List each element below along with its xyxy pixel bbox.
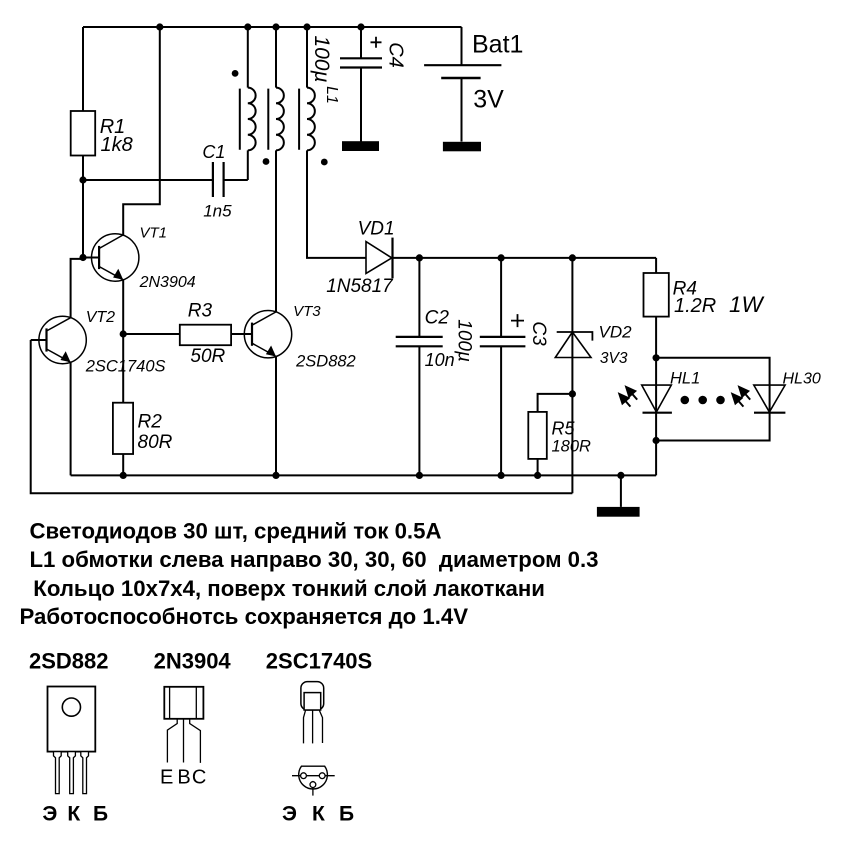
svg-text:К: К bbox=[67, 803, 80, 826]
svg-text:10n: 10n bbox=[425, 350, 455, 370]
svg-text:К: К bbox=[312, 803, 325, 826]
svg-text:B: B bbox=[177, 767, 190, 789]
svg-text:E: E bbox=[160, 767, 173, 789]
svg-text:C1: C1 bbox=[202, 142, 225, 162]
svg-text:Э: Э bbox=[42, 803, 57, 826]
svg-text:2SC1740S: 2SC1740S bbox=[266, 649, 372, 674]
svg-text:3V3: 3V3 bbox=[600, 350, 628, 367]
svg-text:VT3: VT3 bbox=[293, 303, 321, 320]
svg-text:Работоспособнотсь сохраняется: Работоспособнотсь сохраняется до 1.4V bbox=[20, 604, 469, 629]
svg-text:100µ: 100µ bbox=[454, 319, 475, 362]
svg-text:C2: C2 bbox=[425, 307, 450, 328]
svg-text:Светодиодов 30 шт, средний ток: Светодиодов 30 шт, средний ток 0.5А bbox=[30, 519, 442, 544]
svg-text:180R: 180R bbox=[552, 438, 592, 456]
svg-text:VT2: VT2 bbox=[86, 309, 115, 326]
svg-text:R5: R5 bbox=[552, 419, 576, 439]
svg-text:1W: 1W bbox=[729, 292, 765, 317]
svg-text:1n5: 1n5 bbox=[203, 202, 232, 221]
svg-text:Кольцо 10х7х4, поверх тонкий с: Кольцо 10х7х4, поверх тонкий слой лакотк… bbox=[33, 576, 545, 601]
svg-text:C3: C3 bbox=[528, 321, 549, 346]
svg-text:R2: R2 bbox=[138, 412, 163, 433]
svg-text:VD1: VD1 bbox=[358, 219, 395, 240]
svg-text:80R: 80R bbox=[138, 432, 173, 453]
svg-text:2SD882: 2SD882 bbox=[29, 649, 109, 674]
svg-text:1k8: 1k8 bbox=[101, 134, 133, 156]
svg-text:C: C bbox=[192, 767, 206, 789]
svg-text:2SD882: 2SD882 bbox=[295, 353, 356, 371]
svg-text:L1: L1 bbox=[323, 86, 340, 104]
svg-text:R3: R3 bbox=[188, 301, 213, 322]
svg-text:VD2: VD2 bbox=[599, 323, 633, 342]
svg-text:100µ: 100µ bbox=[310, 35, 333, 82]
svg-text:VT1: VT1 bbox=[140, 225, 168, 242]
svg-text:Э: Э bbox=[282, 803, 297, 826]
svg-text:Bat1: Bat1 bbox=[472, 30, 523, 58]
svg-text:L1 обмотки слева направо 30, 3: L1 обмотки слева направо 30, 30, 60 диам… bbox=[30, 547, 599, 572]
svg-text:HL30: HL30 bbox=[783, 371, 821, 388]
svg-text:2N3904: 2N3904 bbox=[154, 649, 232, 674]
svg-text:HL1: HL1 bbox=[670, 370, 700, 388]
svg-text:Б: Б bbox=[93, 803, 108, 826]
svg-text:1N5817: 1N5817 bbox=[326, 276, 394, 297]
svg-text:C4: C4 bbox=[384, 42, 406, 68]
svg-text:1.2R: 1.2R bbox=[674, 295, 716, 317]
svg-text:50R: 50R bbox=[190, 346, 225, 367]
svg-text:3V: 3V bbox=[473, 85, 504, 113]
svg-text:2SC1740S: 2SC1740S bbox=[85, 358, 166, 376]
svg-text:Б: Б bbox=[339, 803, 354, 826]
svg-text:2N3904: 2N3904 bbox=[139, 274, 196, 291]
